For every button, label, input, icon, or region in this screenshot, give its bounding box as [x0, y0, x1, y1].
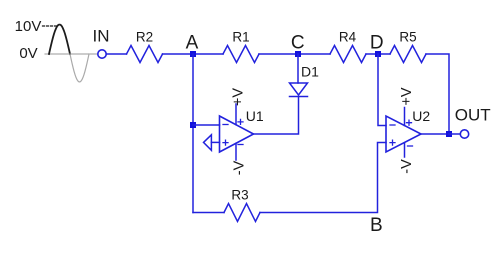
op-amp U2 triangle — [386, 116, 421, 152]
wire node D down to U2 inverting input — [378, 54, 386, 126]
wire R2 to node A — [163, 53, 224, 55]
op-amp U1 minus supply sign — [238, 144, 243, 146]
svg-text:U1: U1 — [246, 108, 264, 124]
svg-text:-V: -V — [232, 160, 248, 175]
bottom rail wire R3 to corner B up to U2 non-inverting input — [260, 143, 386, 213]
wire junction to OUT terminal — [449, 133, 460, 135]
terminal IN circle — [98, 50, 106, 58]
wire R1 to node C to R4 — [259, 53, 330, 55]
svg-text:R2: R2 — [136, 30, 153, 45]
svg-text:R3: R3 — [231, 188, 248, 203]
svg-text:C: C — [291, 32, 305, 53]
resistor R3 — [224, 204, 260, 222]
svg-text:R4: R4 — [339, 30, 357, 45]
op-amp U2 inverting input sign — [390, 124, 395, 126]
svg-text:U2: U2 — [412, 108, 430, 124]
resistor R4 — [330, 46, 366, 63]
svg-text:R1: R1 — [232, 30, 249, 45]
svg-text:0V: 0V — [19, 45, 37, 62]
svg-text:D1: D1 — [301, 64, 319, 80]
source waveform annotation: positive sine half-cycle — [49, 25, 70, 54]
resistor R2 — [127, 46, 163, 63]
wire arrow to U1 non-inverting input — [211, 141, 219, 143]
U1 non-inverting input reference arrow — [204, 135, 212, 151]
op-amp U2 non-inverting input sign — [390, 140, 395, 145]
op-amp U2 +V power pin — [404, 108, 406, 126]
svg-text:B: B — [370, 215, 383, 236]
terminal OUT circle — [460, 130, 468, 138]
wire R4 to node D to R5 — [366, 53, 390, 55]
source waveform annotation: dotted peak reference line — [43, 25, 58, 27]
op-amp U1 non-inverting input sign — [223, 140, 228, 145]
op-amp U1 -V power pin — [235, 143, 237, 160]
source waveform annotation: negative sine half-cycle — [70, 54, 89, 82]
svg-text:D: D — [370, 32, 384, 53]
op-amp U2 plus supply sign — [407, 120, 412, 125]
node D junction — [375, 51, 381, 57]
svg-text:+V: +V — [399, 87, 415, 105]
diode D1 — [290, 83, 308, 97]
op-amp U1 inverting input sign — [223, 124, 228, 126]
bottom rail wire to R3 — [193, 212, 224, 214]
wire IN to R2 — [107, 53, 127, 55]
svg-text:+V: +V — [231, 88, 247, 106]
wire U2 output to junction — [421, 133, 449, 135]
op-amp U2 -V power pin — [404, 143, 406, 157]
wire D1 cathode down and left to U1 output — [254, 97, 299, 135]
svg-text:-V: -V — [399, 159, 415, 174]
wire node A down to bottom rail — [192, 54, 194, 213]
node A junction — [190, 51, 196, 57]
svg-text:R5: R5 — [399, 30, 416, 45]
wire R5 to right corner down to output junction — [426, 54, 449, 134]
op-amp U2 minus supply sign — [408, 145, 413, 147]
node C junction — [295, 51, 301, 57]
svg-text:10V: 10V — [15, 18, 42, 35]
svg-text:OUT: OUT — [455, 106, 491, 125]
svg-text:IN: IN — [93, 27, 110, 46]
source waveform annotation: time axis — [45, 53, 98, 55]
output junction — [446, 131, 452, 137]
resistor R1 — [223, 46, 259, 63]
wire node C down to diode D1 — [297, 54, 299, 83]
op-amp U1 plus supply sign — [238, 119, 243, 124]
op-amp U1 triangle — [220, 116, 254, 152]
op-amp U1 +V power pin — [235, 104, 237, 125]
junction at U1 inverting branch — [190, 122, 196, 128]
resistor R5 — [390, 46, 426, 63]
wire junction to U1 inverting input — [193, 124, 220, 126]
svg-text:A: A — [186, 32, 199, 53]
